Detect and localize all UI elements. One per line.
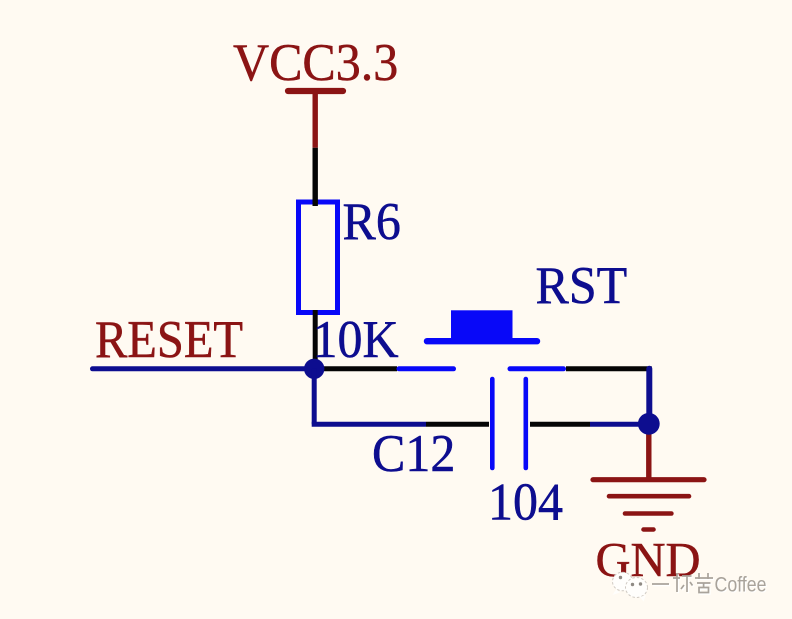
capacitor C12 right plate: [523, 379, 528, 468]
svg-text:104: 104: [488, 473, 563, 532]
svg-text:10K: 10K: [312, 311, 398, 370]
ground bar 3: [625, 511, 671, 516]
wire resistor bottom to junction: [313, 310, 318, 369]
watermark icon (chat bubbles): [613, 572, 648, 601]
wire lower left (navy): [312, 422, 426, 427]
pin button right (blue): [510, 366, 564, 371]
svg-text:RST: RST: [536, 257, 628, 316]
pushbutton RST cap: [451, 310, 513, 338]
power bar VCC3.3: [288, 88, 343, 94]
wire VCC stem (black part): [313, 148, 318, 206]
pin button left (blue): [399, 366, 454, 371]
junction node 2: [638, 413, 660, 435]
svg-text:VCC3.3: VCC3.3: [233, 34, 398, 93]
wire VCC stem (red part): [313, 91, 318, 148]
wire junction to button (black): [314, 366, 397, 371]
wire lower right of cap (black): [530, 422, 590, 427]
svg-text:RESET: RESET: [95, 311, 243, 370]
ground bar 4: [643, 527, 653, 531]
wire button to corner (black): [566, 366, 652, 371]
svg-text:Coffee: Coffee: [715, 573, 767, 597]
wire junction 1 down (navy): [312, 369, 317, 425]
svg-text:GND: GND: [596, 534, 701, 587]
capacitor C12 left plate: [490, 379, 495, 468]
svg-text:R6: R6: [343, 193, 401, 252]
svg-text:C12: C12: [372, 425, 455, 484]
resistor R6: [299, 202, 338, 313]
wire junction 2 to ground (dark red): [646, 424, 651, 479]
ground bar 2: [609, 494, 689, 499]
ground bar 1: [593, 477, 704, 482]
watermark text 一杯苦Coffee: [653, 574, 714, 594]
junction node 1: [304, 359, 324, 379]
wire corner down to junction 2 (navy): [646, 369, 652, 424]
pushbutton RST base bar: [427, 338, 537, 344]
wire lower to junction 2 (navy): [590, 422, 649, 427]
wire lower mid (black): [426, 422, 489, 427]
wire RESET (left horizontal): [93, 366, 315, 371]
